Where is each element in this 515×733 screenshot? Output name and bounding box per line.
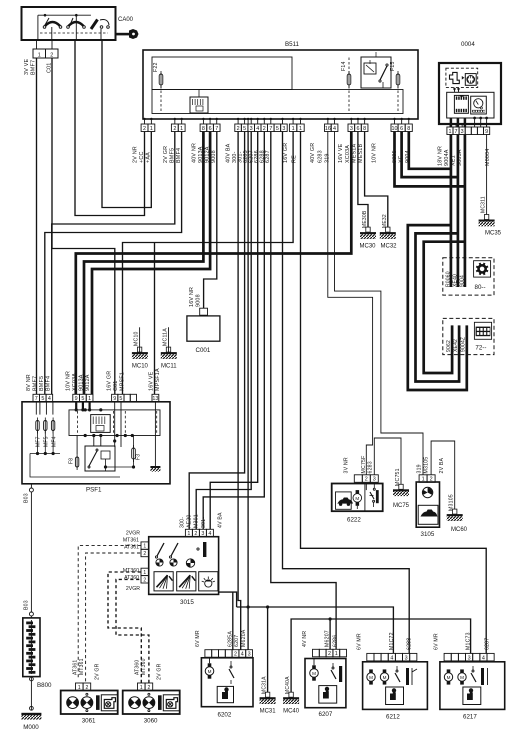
svg-text:M: M (312, 671, 316, 676)
svg-text:M: M (447, 675, 451, 680)
svg-text:C01: C01 (113, 381, 119, 392)
svg-text:3: 3 (201, 531, 204, 537)
svg-text:9013A: 9013A (79, 374, 85, 391)
svg-text:9004A: 9004A (444, 149, 450, 166)
svg-text:301-: 301- (201, 517, 207, 528)
svg-text:AT360: AT360 (124, 575, 139, 581)
svg-text:1: 1 (38, 52, 41, 58)
svg-text:MC60: MC60 (451, 527, 468, 533)
svg-text:3: 3 (248, 652, 251, 658)
svg-text:MC11A: MC11A (162, 328, 168, 346)
svg-text:B800: B800 (37, 682, 52, 689)
svg-text:MT361: MT361 (123, 538, 139, 544)
svg-text:9: 9 (485, 129, 488, 135)
svg-text:16V GR: 16V GR (107, 371, 113, 391)
svg-text:3: 3 (282, 126, 285, 132)
svg-text:2: 2 (365, 477, 368, 483)
svg-text:B03: B03 (24, 493, 30, 503)
svg-text:MC31A: MC31A (261, 676, 267, 694)
svg-text:9004: 9004 (460, 275, 466, 287)
svg-text:4: 4 (482, 655, 485, 661)
svg-text:MC75: MC75 (393, 503, 410, 509)
svg-text:2: 2 (237, 126, 240, 132)
svg-text:1: 1 (140, 685, 143, 691)
svg-text:2: 2 (194, 531, 197, 537)
svg-text:XE40: XE40 (453, 274, 459, 287)
svg-text:MC32: MC32 (380, 244, 397, 250)
svg-text:1: 1 (335, 651, 338, 657)
svg-text:BMF4: BMF4 (176, 148, 182, 163)
svg-text:MC11: MC11 (161, 364, 177, 370)
svg-text:3: 3 (468, 655, 471, 661)
svg-text:9004Z: 9004Z (461, 337, 467, 352)
svg-text:MC40: MC40 (283, 709, 300, 715)
svg-text:MC35: MC35 (485, 231, 502, 237)
svg-text:4: 4 (256, 126, 259, 132)
svg-text:M620A: M620A (241, 629, 247, 647)
svg-text:7: 7 (455, 129, 458, 135)
svg-text:3015: 3015 (180, 599, 194, 606)
svg-text:MT360: MT360 (141, 658, 147, 675)
svg-text:XC03A: XC03A (72, 373, 78, 391)
svg-text:1: 1 (143, 544, 146, 550)
svg-text:319: 319 (324, 153, 330, 163)
svg-text:MC311: MC311 (480, 196, 486, 213)
svg-text:M0004: M0004 (485, 149, 491, 166)
svg-text:72--: 72-- (475, 345, 486, 352)
svg-text:B03: B03 (24, 600, 30, 610)
svg-text:9008: 9008 (196, 294, 202, 307)
svg-text:MC10: MC10 (132, 364, 149, 370)
svg-text:MC30: MC30 (359, 244, 376, 250)
svg-text:BMF4: BMF4 (46, 376, 52, 391)
svg-text:16V NR: 16V NR (189, 287, 195, 307)
svg-text:F15: F15 (390, 61, 396, 71)
svg-text:1: 1 (448, 129, 451, 135)
svg-text:1: 1 (143, 570, 146, 576)
svg-text:40V GR: 40V GR (310, 143, 316, 163)
svg-text:3V VE: 3V VE (24, 59, 30, 75)
svg-text:MPSF1: MPSF1 (120, 372, 126, 391)
svg-text:MES1B: MES1B (358, 144, 364, 163)
svg-text:1: 1 (78, 685, 81, 691)
svg-text:M000: M000 (23, 724, 39, 731)
svg-text:MC31: MC31 (260, 709, 277, 715)
svg-text:2V GR: 2V GR (95, 663, 101, 680)
svg-text:BMF7: BMF7 (31, 60, 37, 75)
svg-text:40V BA: 40V BA (225, 143, 231, 163)
svg-text:8: 8 (407, 126, 410, 132)
svg-text:2VGR: 2VGR (126, 531, 140, 537)
svg-text:6V MR: 6V MR (434, 633, 440, 650)
svg-text:6287: 6287 (265, 150, 271, 163)
svg-text:1: 1 (292, 126, 295, 132)
svg-text:3V NR: 3V NR (344, 457, 350, 473)
svg-text:MF7: MF7 (36, 436, 42, 447)
svg-text:6212: 6212 (386, 714, 400, 721)
svg-text:6: 6 (400, 126, 403, 132)
svg-text:16V VE: 16V VE (148, 371, 154, 391)
svg-text:6207: 6207 (234, 635, 240, 647)
svg-text:M3105: M3105 (449, 494, 455, 511)
svg-text:0004: 0004 (461, 41, 475, 48)
svg-text:M1C72: M1C72 (389, 632, 395, 650)
svg-text:9012A: 9012A (85, 374, 91, 391)
svg-text:8V NR: 8V NR (26, 374, 32, 391)
svg-text:3060: 3060 (144, 718, 158, 725)
svg-text:4: 4 (390, 655, 393, 661)
svg-text:M: M (383, 675, 387, 680)
svg-text:2V GR: 2V GR (156, 663, 162, 680)
svg-text:F8: F8 (69, 458, 75, 464)
svg-text:10: 10 (392, 126, 398, 132)
svg-text:16V GR: 16V GR (283, 143, 289, 163)
svg-text:M: M (460, 675, 464, 680)
svg-text:MF5: MF5 (44, 436, 50, 447)
svg-text:6: 6 (209, 126, 212, 132)
svg-text:2: 2 (143, 551, 146, 557)
svg-text:6217: 6217 (463, 714, 477, 721)
svg-text:9062: 9062 (446, 340, 452, 352)
svg-text:2: 2 (50, 52, 53, 58)
svg-text:BMF5: BMF5 (39, 376, 45, 391)
svg-text:10V NR: 10V NR (372, 143, 378, 163)
svg-text:AT360: AT360 (135, 660, 141, 675)
svg-text:ME30B: ME30B (362, 210, 368, 228)
svg-text:MF4: MF4 (51, 436, 57, 447)
svg-text:18V NR: 18V NR (438, 146, 444, 166)
svg-text:MPSF1A: MPSF1A (155, 368, 161, 391)
svg-text:2: 2 (86, 685, 89, 691)
svg-text:M: M (208, 669, 212, 674)
svg-text:1: 1 (180, 126, 183, 132)
svg-text:5: 5 (243, 126, 246, 132)
svg-text:F14: F14 (341, 61, 347, 71)
svg-text:RE: RE (292, 155, 298, 163)
svg-text:6: 6 (356, 126, 359, 132)
svg-text:F22: F22 (153, 62, 159, 72)
svg-text:4: 4 (208, 531, 211, 537)
svg-text:6207: 6207 (319, 711, 333, 718)
svg-text:2: 2 (173, 126, 176, 132)
svg-text:4: 4 (241, 652, 244, 658)
svg-text:3: 3 (405, 655, 408, 661)
svg-text:2: 2 (263, 126, 266, 132)
svg-text:6V MR: 6V MR (195, 630, 201, 647)
svg-text:6202: 6202 (218, 712, 232, 719)
svg-text:1: 1 (187, 531, 190, 537)
svg-text:M3105: M3105 (423, 457, 429, 474)
svg-text:5: 5 (276, 126, 279, 132)
svg-text:319: 319 (417, 464, 423, 473)
svg-text:3: 3 (250, 126, 253, 132)
svg-text:6288: 6288 (407, 638, 413, 650)
svg-text:1: 1 (150, 126, 153, 132)
svg-text:3105: 3105 (421, 531, 435, 538)
svg-text:MC75F: MC75F (361, 455, 367, 473)
svg-text:XE42: XE42 (453, 339, 459, 352)
svg-text:AT361: AT361 (73, 660, 79, 675)
svg-text:F3: F3 (136, 454, 142, 460)
svg-text:8: 8 (202, 126, 205, 132)
svg-text:2: 2 (234, 652, 237, 658)
svg-text:4V BA: 4V BA (218, 512, 224, 528)
svg-text:7: 7 (269, 126, 272, 132)
svg-text:R0060: R0060 (446, 271, 452, 287)
svg-text:3: 3 (461, 129, 464, 135)
svg-text:2: 2 (328, 651, 331, 657)
svg-text:ME32: ME32 (382, 214, 388, 228)
svg-text:80--: 80-- (475, 284, 486, 291)
svg-text:MT360: MT360 (123, 568, 139, 574)
svg-text:M: M (369, 675, 373, 680)
svg-text:6283: 6283 (318, 150, 324, 163)
svg-text:3: 3 (373, 477, 376, 483)
svg-text:M: M (355, 496, 359, 501)
svg-text:16V VE: 16V VE (338, 143, 344, 163)
svg-text:6222: 6222 (347, 517, 361, 524)
svg-text:6287: 6287 (484, 638, 490, 650)
svg-text:M6207: M6207 (325, 630, 331, 647)
svg-text:1: 1 (299, 126, 302, 132)
svg-text:8: 8 (363, 126, 366, 132)
svg-text:2V BA: 2V BA (439, 457, 445, 473)
svg-text:MC751: MC751 (395, 468, 401, 486)
svg-text:16: 16 (325, 126, 331, 132)
svg-text:300-: 300- (179, 517, 185, 528)
svg-text:9008: 9008 (211, 150, 217, 163)
svg-text:6V MR: 6V MR (356, 633, 362, 650)
svg-text:6283: 6283 (368, 461, 374, 473)
svg-text:3061: 3061 (82, 718, 96, 725)
svg-text:AE20-: AE20- (187, 513, 193, 528)
svg-text:PSF1: PSF1 (86, 487, 102, 494)
svg-text:10V NR: 10V NR (66, 371, 72, 391)
svg-text:4V NR: 4V NR (302, 631, 308, 647)
svg-text:B511: B511 (285, 41, 300, 48)
svg-text:2: 2 (148, 685, 151, 691)
svg-text:2VGR: 2VGR (126, 586, 140, 592)
svg-text:2V NR: 2V NR (133, 146, 139, 163)
svg-text:2V GR: 2V GR (163, 146, 169, 163)
svg-text:BMF7: BMF7 (33, 376, 39, 391)
svg-text:3: 3 (350, 126, 353, 132)
svg-text:6285A: 6285A (227, 631, 233, 647)
svg-text:C001: C001 (196, 347, 211, 354)
svg-text:6286: 6286 (333, 635, 339, 647)
svg-text:4: 4 (333, 126, 336, 132)
svg-text:7: 7 (215, 126, 218, 132)
svg-text:MT361: MT361 (79, 658, 85, 675)
svg-text:CA00: CA00 (118, 17, 134, 23)
svg-text:2: 2 (143, 577, 146, 583)
svg-text:M301-: M301- (194, 512, 200, 528)
svg-text:40V NR: 40V NR (192, 143, 198, 163)
svg-text:+AA: +AA (146, 152, 152, 163)
svg-text:M1C73: M1C73 (466, 632, 472, 650)
svg-text:2: 2 (143, 126, 146, 132)
svg-text:MC40A: MC40A (285, 676, 291, 694)
svg-text:MC10: MC10 (134, 331, 140, 346)
